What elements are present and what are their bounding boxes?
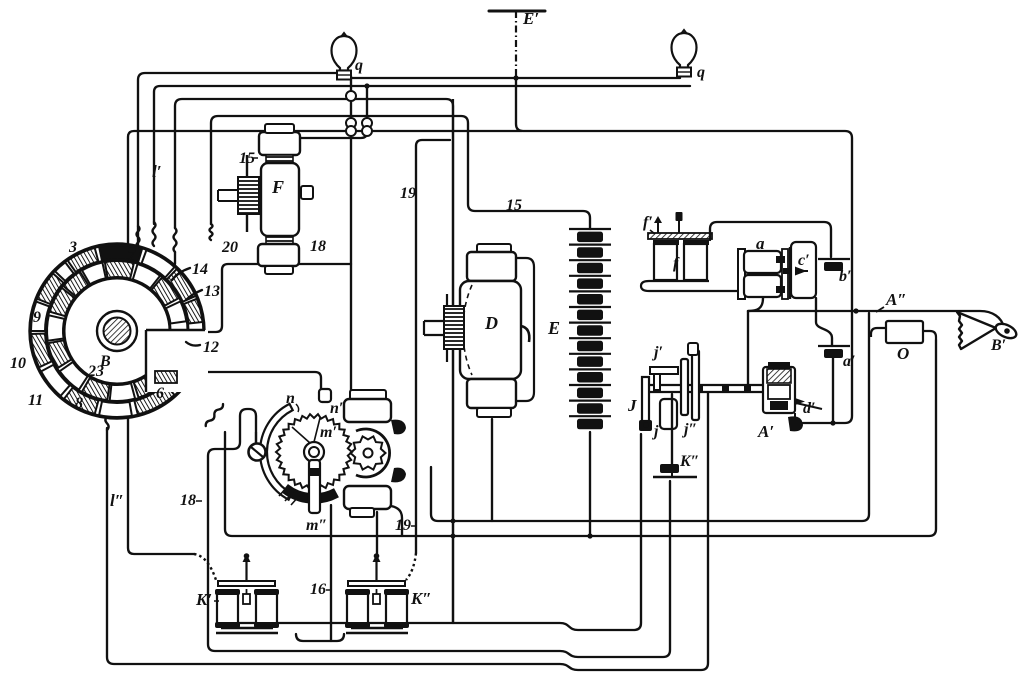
wire — [105, 410, 108, 430]
node junction — [643, 422, 649, 428]
wire — [225, 340, 936, 536]
wire — [816, 298, 832, 346]
wire — [107, 393, 708, 670]
node b1 label — [839, 268, 852, 285]
node K2g label — [679, 453, 700, 470]
node label l1 — [152, 162, 162, 181]
node junction — [513, 75, 518, 80]
wire — [175, 99, 453, 623]
wire bridge — [346, 91, 356, 101]
node junction — [745, 386, 751, 392]
node label 16 — [310, 581, 330, 598]
svg-text:O: O — [897, 344, 909, 363]
svg-text:E: E — [547, 318, 560, 338]
node label 19 — [400, 185, 416, 202]
wire — [206, 264, 351, 332]
node K1 label — [195, 590, 219, 609]
wire — [416, 140, 450, 553]
svg-text:n′: n′ — [330, 400, 343, 417]
wire — [710, 222, 831, 257]
svg-text:11: 11 — [28, 392, 43, 409]
svg-text:l′: l′ — [152, 162, 162, 181]
node junction — [364, 83, 369, 88]
wire — [154, 86, 690, 224]
svg-text:15: 15 — [506, 197, 522, 214]
relay K2 — [345, 553, 409, 633]
lever J — [639, 377, 652, 431]
node label 8 — [75, 395, 83, 412]
shaft ticks — [694, 385, 751, 393]
svg-text:a′: a′ — [843, 353, 856, 370]
lamp q left — [332, 33, 357, 80]
node n1 label — [330, 400, 343, 417]
node J label — [627, 396, 637, 415]
svg-text:q: q — [697, 64, 705, 81]
node m2 label — [306, 517, 327, 534]
node label 9 — [33, 309, 41, 326]
svg-text:6: 6 — [156, 385, 164, 402]
svg-text:m″: m″ — [306, 517, 327, 534]
node label 3 — [68, 239, 77, 256]
node j1 label — [651, 344, 663, 361]
ground E1 bar — [489, 10, 545, 13]
node label l2 — [110, 491, 124, 510]
node n label — [286, 390, 299, 412]
node B1 label — [990, 337, 1006, 354]
relay f — [641, 212, 741, 291]
svg-text:F: F — [271, 177, 284, 197]
svg-text:12: 12 — [203, 339, 219, 356]
commutator wheel B — [30, 244, 208, 418]
node O label — [897, 344, 909, 363]
node label 13 — [204, 283, 220, 300]
wire — [391, 506, 402, 536]
wire — [352, 77, 680, 79]
svg-text:14: 14 — [192, 261, 208, 278]
wire — [671, 394, 673, 464]
svg-text:q: q — [355, 57, 363, 74]
node D label — [484, 313, 498, 333]
coil D — [424, 99, 534, 623]
wire — [832, 358, 834, 423]
node label 11 — [28, 392, 43, 409]
svg-text:10: 10 — [10, 355, 26, 372]
svg-text:f′: f′ — [643, 214, 653, 231]
svg-text:7: 7 — [127, 248, 136, 265]
contact blob — [788, 413, 803, 431]
svg-text:K′: K′ — [195, 590, 212, 609]
coil F — [218, 124, 313, 274]
wire — [137, 226, 140, 248]
node label 20 — [221, 239, 238, 256]
node junction — [587, 533, 592, 538]
node label 18 — [310, 238, 326, 255]
wire — [174, 228, 177, 252]
svg-text:a: a — [756, 234, 765, 253]
svg-text:D: D — [484, 313, 498, 333]
svg-text:B: B — [99, 353, 111, 370]
contact d1 — [795, 398, 822, 409]
wire — [748, 311, 1004, 328]
relay a — [738, 249, 788, 299]
relay K1 — [215, 553, 279, 633]
wire — [748, 298, 763, 311]
wire bridge — [346, 118, 356, 128]
wire — [217, 434, 641, 630]
wire — [747, 311, 749, 389]
svg-text:8: 8 — [75, 395, 83, 412]
node junction — [451, 534, 456, 539]
horn B1 — [957, 312, 1019, 349]
node label 10 — [10, 355, 26, 372]
node a1 label — [843, 353, 856, 370]
node q label — [355, 57, 363, 74]
wire — [296, 634, 344, 641]
wire — [406, 553, 416, 580]
wire — [160, 372, 321, 390]
svg-text:c′: c′ — [798, 252, 810, 269]
svg-text:n: n — [286, 390, 295, 407]
node A1 label — [757, 422, 774, 441]
svg-text:b′: b′ — [839, 268, 852, 285]
wire — [210, 224, 213, 240]
gear assembly m-n — [249, 389, 407, 517]
battery b1 — [818, 259, 850, 271]
node d1 label — [803, 400, 816, 417]
svg-text:K″: K″ — [410, 589, 432, 608]
wire — [138, 73, 336, 248]
svg-text:d′: d′ — [803, 400, 816, 417]
node j2 label — [681, 421, 697, 438]
wire — [515, 12, 517, 76]
node label 19b — [395, 517, 416, 534]
svg-text:13: 13 — [204, 283, 220, 300]
node m1 label — [320, 424, 337, 441]
wire — [186, 290, 202, 300]
svg-text:18: 18 — [180, 492, 196, 509]
svg-text:A′: A′ — [757, 422, 774, 441]
node q label — [697, 64, 705, 81]
wire — [516, 78, 852, 423]
node A2 label — [876, 290, 907, 312]
svg-text:9: 9 — [33, 309, 41, 326]
resistor O — [871, 321, 936, 343]
wire — [153, 222, 156, 246]
node label 14 — [192, 261, 208, 278]
svg-text:J: J — [627, 396, 637, 415]
clutch plates — [681, 343, 699, 420]
svg-text:3: 3 — [68, 239, 77, 256]
armature A1 — [763, 362, 795, 413]
node f label — [673, 255, 680, 272]
node label B — [99, 353, 111, 370]
wire bridge — [346, 126, 356, 136]
wire shaft — [646, 385, 763, 392]
wire — [301, 86, 367, 138]
svg-text:A″: A″ — [885, 290, 907, 309]
wire — [350, 76, 352, 391]
svg-text:B′: B′ — [990, 337, 1006, 354]
node E1 label — [522, 9, 539, 28]
node label 23 — [87, 363, 104, 380]
svg-text:l″: l″ — [110, 491, 124, 510]
wire — [205, 403, 225, 427]
ground K2 — [653, 464, 697, 477]
node a label — [756, 234, 765, 253]
node junction — [451, 519, 456, 524]
wire — [211, 116, 590, 229]
bracket j1 — [650, 367, 678, 390]
battery E — [569, 229, 611, 429]
svg-text:E′: E′ — [522, 9, 539, 28]
svg-text:18: 18 — [310, 238, 326, 255]
wire — [128, 131, 522, 554]
node f1 label — [643, 214, 655, 234]
wire — [376, 512, 378, 556]
wire — [174, 252, 176, 264]
node K2 label — [410, 589, 432, 608]
dashpot Jb — [660, 399, 677, 429]
wire — [186, 342, 200, 346]
node label 15b — [506, 197, 522, 214]
svg-text:j″: j″ — [681, 421, 697, 438]
node j label — [651, 423, 659, 440]
wire bridge — [362, 118, 372, 128]
wire — [589, 432, 591, 536]
node label 7 — [127, 248, 136, 265]
node label 18b — [180, 492, 202, 509]
node label 15 — [239, 150, 258, 167]
wire — [194, 554, 216, 580]
wire bridge — [362, 126, 372, 136]
node label 12 — [203, 339, 219, 356]
node junction — [853, 308, 858, 313]
node F label — [271, 177, 284, 197]
wire — [208, 409, 670, 657]
node c1 label — [798, 252, 810, 269]
svg-text:m′: m′ — [320, 424, 337, 441]
battery a1 — [818, 346, 850, 358]
lamp q right — [672, 30, 697, 77]
svg-text:20: 20 — [221, 239, 238, 256]
node E label — [547, 318, 560, 338]
contact c1 — [783, 242, 816, 299]
wire — [330, 505, 332, 641]
node label 6 — [156, 385, 164, 402]
wire — [431, 313, 869, 521]
node junction — [830, 420, 835, 425]
svg-text:19: 19 — [395, 517, 411, 534]
svg-text:16: 16 — [310, 581, 326, 598]
svg-text:K″: K″ — [679, 453, 700, 470]
svg-text:19: 19 — [400, 185, 416, 202]
wire — [491, 419, 493, 521]
wire — [172, 268, 190, 280]
